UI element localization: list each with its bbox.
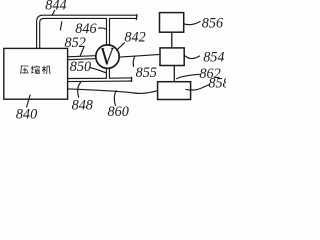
压 (21, 66, 29, 74)
leader 860 (114, 91, 116, 106)
box 856 (160, 13, 184, 33)
缩 (32, 66, 40, 74)
leader 852 (80, 47, 84, 55)
机 (42, 66, 50, 74)
svg-text:842: 842 (124, 30, 145, 46)
svg-text:858: 858 (208, 76, 226, 92)
svg-text:854: 854 (203, 50, 224, 66)
leader 850 (91, 68, 106, 73)
drop pipe below valve (106, 68, 109, 78)
leader 856 (184, 21, 200, 24)
leader 854 (184, 55, 199, 58)
compressor box 840 (4, 48, 68, 99)
connector 862 between 854 and 858 (173, 66, 175, 82)
valve circle 842 (96, 45, 119, 68)
valve letter V (103, 49, 107, 64)
connector 856 to 854 (171, 32, 173, 48)
leader 844 (52, 10, 54, 15)
bottom pipe 848 (68, 78, 132, 82)
leader 840 (27, 95, 31, 107)
wire 855 valve to box 854 (120, 54, 160, 57)
leader 848 (78, 82, 81, 97)
discharge pipe 844 inner line (40, 18, 137, 48)
suction pipe 852 (68, 56, 96, 60)
branch pipe 846 (107, 18, 110, 45)
svg-text:840: 840 (16, 107, 37, 121)
svg-text:852: 852 (65, 35, 86, 51)
discharge pipe 844 outer line (37, 15, 137, 48)
svg-text:850: 850 (70, 59, 91, 75)
leader 858 (186, 85, 210, 91)
svg-text:860: 860 (108, 104, 129, 120)
leader 855 (133, 56, 135, 66)
svg-text:856: 856 (202, 15, 224, 31)
leader 842 (117, 43, 125, 50)
wire 860 compressor to box 858 (68, 89, 158, 94)
svg-text:844: 844 (45, 0, 66, 14)
discharge pipe end cap (135, 15, 138, 20)
leader 862 (177, 74, 200, 78)
compressor text 压缩机 (drawn as paths) (21, 66, 51, 74)
leader 846 (99, 28, 107, 29)
stub mark (60, 22, 61, 30)
box 854 (160, 48, 184, 66)
svg-text:855: 855 (136, 65, 157, 81)
bottom pipe end cap (131, 77, 133, 81)
box 858 (158, 82, 191, 100)
svg-text:848: 848 (72, 98, 93, 114)
